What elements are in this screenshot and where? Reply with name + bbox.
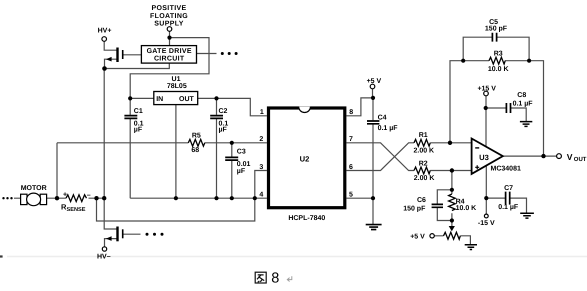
svg-text:R1: R1 [419, 132, 428, 139]
svg-text:IN: IN [156, 96, 163, 103]
label R5 value [191, 133, 200, 154]
svg-text:2: 2 [259, 136, 263, 143]
wire pot wiper stub [451, 221, 453, 227]
junction node RSENSE- kelvin [94, 196, 98, 200]
svg-text:10.0 K: 10.0 K [456, 205, 477, 212]
wire offset branch R4 column [451, 171, 453, 221]
label R3 value [488, 51, 509, 74]
svg-text:–: – [87, 192, 91, 199]
wire GND1 bus to U2 pin 4 [130, 197, 267, 199]
svg-text:8: 8 [349, 109, 353, 116]
wire gate drive return to Q1 source [105, 63, 170, 68]
junction node RSENSE+ [55, 196, 59, 200]
node dots Q2 gate continuation [146, 233, 149, 236]
svg-text:FLOATING: FLOATING [150, 13, 188, 20]
label VOUT [567, 152, 587, 163]
wire phase column [104, 69, 117, 230]
capacitor C3 0.01uF plates [225, 157, 238, 160]
resistor RSENSE [66, 195, 87, 202]
wire C1 leads [129, 98, 131, 198]
svg-text:µF: µF [237, 168, 246, 175]
svg-text:150 pF: 150 pF [403, 206, 426, 213]
wire floating supply to U1 IN [130, 38, 209, 99]
page rule line [7, 256, 587, 258]
wire RSENSE+ vertical [56, 143, 58, 198]
label R4 value [456, 199, 477, 212]
svg-text:HV–: HV– [97, 254, 111, 261]
wire C6 loop [437, 190, 452, 221]
label C8 value [513, 92, 534, 108]
label C4 value [378, 115, 399, 133]
label C7 value [498, 185, 519, 211]
ground under C7 [520, 213, 534, 218]
junction node U1 OUT / C2 [214, 96, 218, 100]
label R1 value [413, 132, 434, 154]
svg-text:6: 6 [349, 164, 353, 171]
wire U1 ground lead [175, 105, 177, 199]
svg-text:HCPL-7840: HCPL-7840 [288, 215, 325, 222]
svg-text:150 pF: 150 pF [485, 26, 508, 33]
label C6 value [403, 197, 426, 213]
svg-text:C3: C3 [237, 149, 246, 156]
junction node C3 on bus [230, 196, 234, 200]
wire C3 leads [231, 143, 233, 198]
svg-text:OUT: OUT [179, 96, 195, 103]
terminal positive floating supply [167, 27, 172, 32]
resistor R2 2.00K [414, 167, 430, 174]
svg-text:R2: R2 [419, 160, 428, 167]
wire Q1 gate to gate drive box [123, 54, 141, 56]
svg-text:1: 1 [260, 109, 264, 116]
capacitor C2 0.1uF plates [210, 116, 223, 119]
pot wiper arrow [449, 226, 455, 231]
junction node phase / motor row [102, 196, 106, 200]
junction node output feedback [541, 154, 545, 158]
svg-text:POSITIVE: POSITIVE [151, 5, 186, 12]
terminal HV- [102, 247, 106, 251]
svg-text:C7: C7 [504, 185, 513, 192]
wire U2 pin 6 crossover [346, 143, 414, 171]
svg-text:0.1 µF: 0.1 µF [513, 101, 534, 108]
wire R1 to op-amp inverting input [430, 142, 471, 144]
wire feedback node vertical [450, 61, 463, 143]
wire R2 to op-amp non-inverting input [430, 170, 471, 172]
svg-text:SUPPLY: SUPPLY [154, 21, 183, 28]
svg-text:GATE DRIVE: GATE DRIVE [147, 48, 192, 55]
label gate drive circuit [147, 48, 192, 62]
label RSENSE polarity marks [63, 192, 91, 199]
ground under U2 pin 5 [366, 225, 382, 230]
gate drive circuit box [141, 46, 196, 64]
resistor R3 10.0K [489, 57, 505, 64]
regulator U1 78L05 box [154, 92, 198, 105]
wire U2 pin 3 to GND1 [255, 171, 267, 199]
svg-text:U2: U2 [300, 154, 310, 163]
wire gate drive box output continuation [197, 53, 217, 55]
caption figure glyph [255, 272, 266, 283]
wire U1 IN [130, 97, 154, 99]
wire -15V branch [485, 165, 487, 214]
label C1 value [134, 108, 144, 134]
junction node +5V / pin8 [371, 96, 375, 100]
svg-text:0.1 µF: 0.1 µF [498, 204, 519, 211]
svg-text:C8: C8 [517, 92, 526, 99]
node dots gate drive continuation [221, 52, 224, 55]
svg-text:8: 8 [271, 271, 279, 287]
wire C5 loop [463, 37, 529, 61]
svg-text:7: 7 [349, 136, 353, 143]
junction node feedback left [448, 141, 452, 145]
svg-text:V: V [567, 152, 573, 162]
terminal -15V [484, 214, 488, 218]
wire RSENSE- to GND1 kelvin path [97, 198, 255, 221]
svg-text:5: 5 [349, 192, 353, 199]
svg-text:C2: C2 [219, 108, 228, 115]
junction node +15V / C8 [484, 106, 488, 110]
terminal VOUT [557, 154, 562, 159]
junction node -15V / C7 [484, 196, 488, 200]
wire U2 pin 7 crossover [346, 143, 414, 171]
wire Q1 source to phase node [105, 59, 118, 68]
terminal +15V [484, 91, 489, 96]
wire Q2 source to HV- [105, 239, 118, 247]
svg-text:3: 3 [259, 164, 263, 171]
capacitor C8 0.1uF plates [506, 103, 510, 113]
svg-text:HV+: HV+ [98, 27, 112, 34]
svg-text:-15 V: -15 V [478, 220, 495, 227]
svg-text:U1: U1 [172, 76, 181, 83]
caption return mark [287, 276, 292, 281]
resistor R1 2.00K [414, 139, 430, 146]
junction node R3/C5 right [527, 59, 531, 63]
capacitor C7 0.1uF plates [506, 192, 510, 205]
resistor R5 68 [188, 139, 204, 146]
svg-text:R5: R5 [192, 133, 201, 140]
junction node U1 IN / C1 [128, 96, 132, 100]
terminal +5V top [370, 84, 375, 89]
svg-text:C4: C4 [378, 115, 387, 122]
svg-text:U3: U3 [479, 153, 489, 162]
wire floating supply drop to gate drive box [169, 31, 171, 45]
wire +5V terminal drop [372, 89, 374, 98]
svg-text:µF: µF [134, 127, 143, 134]
op-amp U3 MC34081 [472, 139, 503, 174]
junction node offset / R4 top [450, 168, 454, 172]
junction node GND2 / pin5 [371, 196, 375, 200]
junction node at floating supply [167, 36, 171, 40]
wire op-amp output to VOUT [503, 155, 557, 157]
label RSENSE [61, 203, 86, 213]
svg-text:+15 V: +15 V [477, 85, 496, 92]
ground under C8 [520, 122, 532, 127]
svg-text:68: 68 [191, 147, 199, 154]
svg-text:C1: C1 [134, 108, 143, 115]
motor M [21, 193, 47, 206]
node dots motor continuation [2, 197, 4, 199]
wire U2 pin 8 jog to +5V node [346, 98, 373, 116]
wire U2 pin 5 stub [346, 197, 373, 199]
svg-text:10.0 K: 10.0 K [488, 66, 509, 73]
label C5 value [485, 19, 508, 32]
label C2 value [219, 108, 229, 134]
svg-text:OUT: OUT [574, 156, 587, 163]
svg-text:SENSE: SENSE [67, 207, 86, 213]
wire C8 row and ground [486, 108, 527, 121]
svg-text:+: + [63, 192, 67, 199]
svg-text:+5 V: +5 V [367, 78, 382, 85]
capacitor C1 0.1uF plates [124, 116, 137, 119]
svg-text:4: 4 [259, 192, 263, 199]
ground under offset pot [465, 245, 477, 250]
svg-text:MOTOR: MOTOR [21, 185, 47, 192]
capacitor C4 0.1uF plates [367, 121, 379, 124]
svg-text:78L05: 78L05 [167, 83, 187, 90]
terminal +5V pot [430, 234, 434, 238]
junction node R4/C6 bottom [450, 218, 454, 222]
wire Q2 gate continuation [123, 233, 140, 235]
svg-text:µF: µF [219, 127, 228, 134]
wire C2 leads [216, 98, 218, 198]
terminal HV+ [102, 37, 107, 42]
wire pot row to ground [434, 236, 470, 245]
junction node U1 gnd on bus [174, 196, 178, 200]
junction node R3/C5 left [461, 59, 465, 63]
wire HV+ to Q1 drain [104, 41, 117, 50]
svg-text:2.00 K: 2.00 K [414, 175, 435, 182]
page rule tick [0, 255, 3, 257]
resistor R4 10.0K vertical [449, 194, 456, 210]
wire C7 row and ground [486, 198, 526, 213]
label POSITIVE FLOATING SUPPLY [150, 5, 188, 28]
svg-text:0.1 µF: 0.1 µF [378, 125, 399, 132]
wire U1 OUT to U2 pin 1 [198, 98, 267, 115]
svg-text:+5 V: +5 V [410, 234, 425, 241]
capacitor C6 150pF plates [432, 204, 443, 207]
label R2 value [414, 160, 435, 182]
svg-text:CIRCUIT: CIRCUIT [154, 55, 185, 62]
svg-text:C6: C6 [417, 197, 426, 204]
resistor offset potentiometer [444, 232, 461, 239]
svg-text:2.00 K: 2.00 K [413, 148, 434, 155]
transistor Q1 upper MOSFET [106, 48, 123, 63]
wire feedback to output [529, 61, 543, 156]
junction node Q1 source [102, 66, 107, 71]
label C3 value [237, 149, 251, 175]
wire motor row [14, 197, 104, 199]
wire C4 column and GND2 [372, 98, 374, 224]
wire +15V branch [485, 96, 487, 148]
junction node C3 / pin2 wire [230, 141, 234, 145]
transistor Q2 lower MOSFET [106, 227, 123, 242]
junction node pin3/pin4 [253, 196, 257, 200]
junction node R4/C6 top [450, 188, 454, 192]
junction node C2 on bus [214, 196, 218, 200]
capacitor C5 150pF plates [492, 33, 496, 42]
isolation amplifier U2 HCPL-7840 body [269, 107, 345, 208]
svg-text:R3: R3 [494, 51, 503, 58]
wire RSENSE+ to R5 to U2 pin 2 [57, 142, 267, 144]
svg-text:MC34081: MC34081 [491, 165, 521, 172]
wire R3 row [463, 60, 529, 62]
